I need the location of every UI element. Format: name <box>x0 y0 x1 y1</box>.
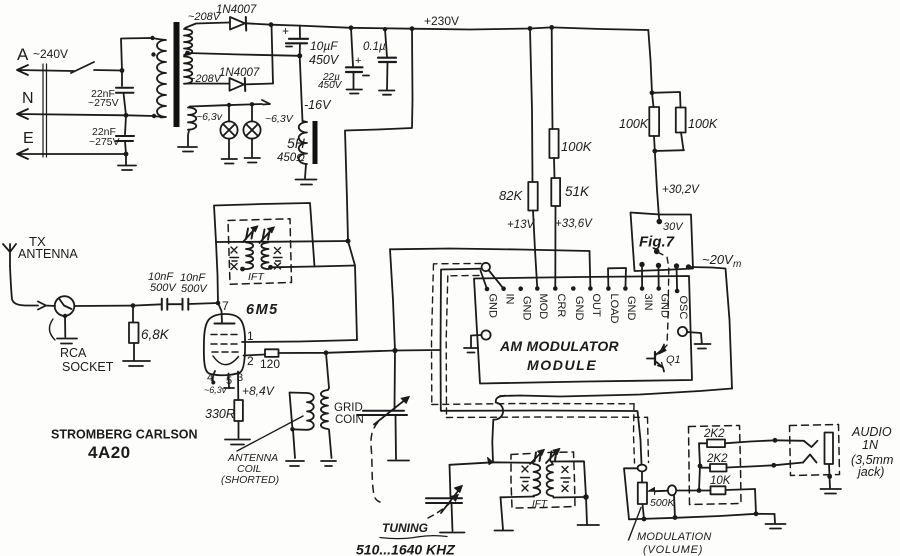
wire socket to node <box>74 305 133 307</box>
IFT1 core marks right <box>274 248 283 270</box>
node Fig7 pinD <box>686 264 691 269</box>
lamp LP1 <box>228 108 230 122</box>
svg-text:CRR: CRR <box>555 294 567 318</box>
IFT2 dashed box <box>511 452 575 508</box>
coax shield dashed pot drop <box>634 404 635 463</box>
capacitor C1 22nF upper: stem <box>121 71 123 87</box>
wire primary top <box>121 38 161 71</box>
svg-text:4A20: 4A20 <box>88 443 131 462</box>
svg-text:~6,3v: ~6,3v <box>196 111 223 123</box>
wire pin7 riser <box>216 242 222 322</box>
wire grid loop box <box>214 203 315 267</box>
transistor Q1 <box>654 352 656 365</box>
wire antenna coil to ground <box>293 430 295 458</box>
tube V1 envelope <box>204 314 245 375</box>
wire IFT2 primary ground drop <box>501 497 504 529</box>
svg-text:jack): jack) <box>856 465 884 479</box>
trimmer cap T4 <box>550 451 557 461</box>
svg-text:MODULATION: MODULATION <box>637 531 712 543</box>
wire osc out right and down <box>689 267 733 389</box>
svg-text:~6,3v: ~6,3v <box>204 385 227 395</box>
node ift-b+ <box>346 239 351 244</box>
jack dashed box <box>790 425 840 476</box>
wire R4 to MOD pin <box>533 211 537 289</box>
RCA socket J1 <box>55 296 75 316</box>
ground lamp LP2 <box>245 158 261 163</box>
ground VC1 <box>388 460 409 462</box>
RCA shield arc <box>49 319 55 340</box>
wire +230V rail <box>300 26 649 30</box>
transformer T1 secondary winding ~208V lower <box>184 53 192 84</box>
svg-text:7: 7 <box>222 299 229 313</box>
resistor R10 2K2 <box>700 467 710 469</box>
wire R10 to jack ring <box>774 463 803 466</box>
resistor R4 82K feed <box>530 29 533 183</box>
IFT2 primary coil <box>533 463 540 497</box>
TUBE SECTION <box>51 242 440 462</box>
bracket LOAD-GND strap <box>608 268 626 289</box>
wire coax centre to IN pin <box>489 270 504 289</box>
capacitor C1 lower stem <box>124 93 127 115</box>
wire rail to 100K pair <box>648 30 652 93</box>
jack J2 tip contact <box>804 441 818 447</box>
resistor R2 120 <box>265 349 279 357</box>
wire coax shield to GND pin <box>481 271 488 290</box>
wire IFT2 primary bottom <box>501 496 535 499</box>
wire mains cable pair <box>43 64 47 157</box>
svg-text:6M5: 6M5 <box>246 302 279 318</box>
connector left circle <box>481 330 490 339</box>
wire +30V into Fig7 <box>655 151 660 222</box>
ground RCA socket <box>57 339 77 344</box>
svg-text:GND: GND <box>487 294 499 319</box>
RF INPUT SECTION <box>3 234 220 374</box>
wire socket to ground <box>64 316 66 337</box>
svg-text:SOCKET: SOCKET <box>62 360 114 374</box>
wire -16V choke feed <box>300 56 303 121</box>
node N-junction <box>124 113 129 118</box>
svg-text:LOAD: LOAD <box>608 294 620 324</box>
svg-text:IFT: IFT <box>248 271 265 283</box>
wire VC1 to ground <box>395 416 398 460</box>
wire OUT drop to tuning <box>390 249 395 350</box>
svg-text:450V: 450V <box>318 80 343 91</box>
svg-text:IN: IN <box>504 294 516 305</box>
MODULE SECTION <box>390 27 741 464</box>
antenna symbol TX <box>3 244 16 266</box>
transformer T1 primary winding <box>157 40 166 118</box>
jack J2 ring contact <box>803 455 817 463</box>
svg-text:MODULE: MODULE <box>527 357 597 373</box>
wire IFT2 secondary top to right rail <box>551 461 586 497</box>
svg-text:450V: 450V <box>309 53 340 67</box>
svg-text:MOD: MOD <box>537 294 549 320</box>
svg-text:10µF: 10µF <box>310 39 338 53</box>
svg-text:51K: 51K <box>565 184 590 199</box>
node Fig7 pinC <box>674 263 679 268</box>
node primary-tap <box>151 52 155 56</box>
wire heater bottom to ground <box>188 130 189 146</box>
ground R3 <box>225 440 250 445</box>
svg-text:500V: 500V <box>181 283 208 295</box>
node Fig7 pinB <box>656 263 661 268</box>
Fig7 box <box>631 213 694 272</box>
switch S1 blade <box>71 62 94 73</box>
svg-text:1: 1 <box>247 329 254 343</box>
trimmer cap T2 <box>263 229 271 240</box>
ground VC2 <box>440 532 465 534</box>
node rail-82k <box>528 26 533 31</box>
wire pin2 lead <box>244 355 266 356</box>
wire osc bottom run <box>500 389 732 397</box>
svg-text:+: + <box>355 55 361 67</box>
wire D2 cathode riser <box>272 25 274 84</box>
wire pin4 lead <box>213 371 215 382</box>
coax connector circle at IN <box>482 263 490 271</box>
node Fig7 base <box>654 249 660 255</box>
trimmer cap T3 <box>535 452 542 462</box>
RECTIFIER/PSU SECTION <box>186 4 648 185</box>
svg-text:GND: GND <box>521 296 533 321</box>
svg-text:STROMBERG CARLSON: STROMBERG CARLSON <box>51 428 198 442</box>
node coil-bottom <box>152 114 156 118</box>
svg-text:1N: 1N <box>862 438 879 452</box>
node center-tap <box>185 51 190 56</box>
wire IFT2 to ground <box>586 497 587 524</box>
wiper arrow VR1 <box>648 488 655 495</box>
svg-text:510...1640 KHZ: 510...1640 KHZ <box>356 542 455 556</box>
svg-text:(SHORTED): (SHORTED) <box>221 474 279 486</box>
connector wiper ellipse <box>668 485 676 495</box>
ground heater winding <box>178 147 197 152</box>
node lamp2-top <box>250 102 254 106</box>
wire R11 to rail <box>755 489 756 514</box>
node R10 out <box>771 463 776 468</box>
jack J2 sleeve <box>825 433 834 465</box>
svg-text:2K2: 2K2 <box>703 428 725 440</box>
resistor R8 100K parallel <box>652 92 681 108</box>
wire grid coil riser <box>326 353 329 388</box>
coax shield dashed vertical pair <box>432 264 434 405</box>
svg-text:5H: 5H <box>287 135 306 151</box>
pointer modulation <box>629 508 642 541</box>
svg-text:~20V: ~20V <box>702 252 734 267</box>
coax shield dashed top left <box>434 263 481 265</box>
node socket shell <box>63 314 67 318</box>
trimmer cap T1 <box>246 228 254 239</box>
node tuning junction <box>392 348 397 353</box>
svg-text:IFT: IFT <box>532 499 548 510</box>
svg-text:Q1: Q1 <box>666 354 681 366</box>
svg-text:+: + <box>282 24 289 38</box>
ground connector right <box>695 344 711 349</box>
wire D1 to rail <box>271 24 300 27</box>
capacitor C2 22nF lower: stem <box>125 115 126 134</box>
transformer T1 heater winding ~6.3V <box>188 107 196 131</box>
lamp LP2 <box>251 107 253 122</box>
node pin4 end <box>211 381 215 385</box>
svg-text:AUDIO: AUDIO <box>851 425 892 439</box>
capacitor C4 22uF 450V <box>351 28 353 66</box>
svg-text:1N4007: 1N4007 <box>216 4 257 16</box>
wire VC1 riser <box>394 351 397 410</box>
MAINS SECTION <box>17 36 161 170</box>
node E-junction <box>124 152 129 157</box>
diode D1 1N4007 upper <box>186 23 230 28</box>
svg-text:Fig.7: Fig.7 <box>639 234 675 251</box>
resistor dashed box <box>689 426 742 505</box>
svg-text:GND: GND <box>625 296 637 321</box>
node primary-top <box>150 36 154 40</box>
inductor L1 5H choke <box>299 121 307 164</box>
node D1 cathode junction <box>269 22 274 27</box>
ground antenna coil <box>286 461 304 466</box>
svg-text:10K: 10K <box>710 475 732 487</box>
resistor R5 100K feed <box>551 27 554 129</box>
wire antenna to socket with arrow <box>10 266 55 310</box>
inductor grid coil <box>321 388 332 458</box>
svg-text:~240V: ~240V <box>33 47 68 61</box>
wire tank top <box>450 462 534 465</box>
svg-text:100K: 100K <box>688 117 718 131</box>
ground IFT2 secondary <box>578 524 600 526</box>
ground IFT2 primary <box>495 530 514 532</box>
wire A line with arrow <box>17 65 74 75</box>
node pot bottom <box>642 517 647 522</box>
capacitor C3 10uF 450V <box>299 26 301 38</box>
capacitor C7 10nF <box>183 299 189 310</box>
variable capacitor VC1 arrow <box>374 399 407 425</box>
wire 100K pair bottom <box>654 136 684 151</box>
svg-text:m: m <box>733 259 741 270</box>
ground jack <box>821 489 842 494</box>
node rail-100k <box>549 25 554 30</box>
svg-text:330R: 330R <box>205 407 235 421</box>
svg-text:3IN: 3IN <box>642 294 654 311</box>
svg-text:AM MODULATOR: AM MODULATOR <box>499 338 620 354</box>
node rail-22u <box>349 25 354 30</box>
transformer T1 secondary winding ~208V upper <box>184 28 192 56</box>
TRANSFORMER SECTION <box>157 11 294 164</box>
wire wiper branch down <box>674 495 675 518</box>
IFT1 dashed shield box <box>228 219 292 284</box>
inductor L1 core <box>313 121 318 164</box>
svg-text:+30,2V: +30,2V <box>662 184 700 196</box>
node A-junction <box>120 68 125 73</box>
node wiper-rail <box>673 515 678 520</box>
node 100k-pair top <box>650 90 655 95</box>
capacitor C1 plates <box>116 88 134 93</box>
resistor R1 6.8K <box>132 306 134 323</box>
wire VC2 to ground <box>452 503 453 531</box>
svg-text:-16V: -16V <box>304 98 332 112</box>
IFT2 core marks right <box>561 467 570 492</box>
node ift primary bottom <box>240 267 245 272</box>
node link-R10 <box>698 464 703 469</box>
svg-text:GND: GND <box>573 296 585 321</box>
node 6.8k junction <box>131 303 136 308</box>
COILS/TUNING SECTION <box>221 351 599 556</box>
wire node to C6 <box>133 304 162 305</box>
wire center tap run <box>188 53 300 56</box>
node grid junction <box>216 301 221 306</box>
wire corner to ift secondary bottom <box>271 266 356 268</box>
svg-text:30V: 30V <box>663 221 684 233</box>
wire A to junction <box>94 69 122 72</box>
ground below choke <box>296 164 317 185</box>
variable capacitor VC1 plates <box>357 411 407 415</box>
svg-text:GND: GND <box>659 294 671 319</box>
svg-text:500K: 500K <box>650 497 676 509</box>
potentiometer VR1 500K body <box>638 483 647 505</box>
wire jack to ground <box>829 464 830 488</box>
svg-text:(VOLUME): (VOLUME) <box>643 544 703 556</box>
node rail-10k <box>754 511 759 516</box>
inductor antenna coil shorted loop <box>290 393 314 430</box>
svg-text:ANTENNA: ANTENNA <box>18 247 78 261</box>
node IFT2 right <box>583 494 589 500</box>
svg-text:TUNING: TUNING <box>382 521 428 535</box>
wire ift top rail <box>216 241 348 242</box>
IFT2 secondary coil <box>547 462 554 498</box>
connector pot top ellipse <box>638 465 647 472</box>
svg-text:1N4007: 1N4007 <box>219 67 260 79</box>
BOTTOM RIGHT SECTION <box>624 425 893 556</box>
wire shield to rail <box>624 468 638 519</box>
wire R2 to junctions <box>279 350 441 353</box>
capacitor C2 plates <box>116 136 134 141</box>
svg-text:6,8K: 6,8K <box>141 327 170 342</box>
variable capacitor VC2 arrow <box>441 489 460 514</box>
node rail-01u <box>383 27 387 31</box>
svg-text:~275V: ~275V <box>88 97 119 109</box>
wire C7 to grid node <box>189 303 219 304</box>
svg-text:~6,3V: ~6,3V <box>265 113 294 125</box>
svg-text:120: 120 <box>260 357 280 371</box>
node link-R11 <box>697 488 702 493</box>
wire pin5 lead <box>224 374 234 389</box>
wire VC2 stem <box>450 465 451 498</box>
capacitor C5 0.1uF <box>385 29 387 57</box>
wire R9 to jack tip <box>775 439 804 442</box>
node 30V <box>657 219 663 225</box>
svg-text:+33,6V: +33,6V <box>555 218 593 230</box>
capacitor C6 10nF <box>162 299 168 310</box>
dashed gang link VC1 <box>371 422 380 502</box>
svg-text:+230V: +230V <box>424 14 459 28</box>
node ift secondary bottom <box>268 265 273 270</box>
node R9 out <box>773 438 778 443</box>
svg-text:E: E <box>23 130 34 147</box>
svg-text:OSC: OSC <box>677 296 689 320</box>
node osc-tank junction <box>488 458 494 465</box>
node lamp1-top <box>227 103 231 107</box>
ground grid coil <box>321 461 336 466</box>
wire IFT2 secondary bottom <box>554 496 587 499</box>
pointer antenna coil <box>237 416 303 451</box>
module pin dots <box>485 287 490 292</box>
connector right circle <box>678 327 687 336</box>
node Fig7 pinA <box>639 262 644 267</box>
diode D2 1N4007 lower <box>190 83 229 85</box>
wire E line with arrow <box>17 149 126 159</box>
wire Fig7 pinA to 3IN <box>641 265 643 289</box>
coax shield dashed bottom pair <box>432 404 634 405</box>
wire resistor left link <box>699 443 700 490</box>
svg-text:OUT: OUT <box>590 294 602 318</box>
ground bottom rail <box>766 514 786 529</box>
wire R5 to R6 <box>553 158 556 178</box>
svg-text:RCA: RCA <box>60 346 87 360</box>
wire pin3 lead <box>237 372 239 401</box>
svg-text:450Ω: 450Ω <box>277 152 305 164</box>
svg-text:0.1µ: 0.1µ <box>363 41 386 53</box>
coax centre wire <box>441 269 642 465</box>
wire osc hop over shield <box>492 396 505 463</box>
node grid-coil junction <box>324 350 329 355</box>
svg-text:+8,4V: +8,4V <box>242 384 275 398</box>
ground connector left <box>464 348 478 353</box>
ground R1 <box>123 361 150 366</box>
tube V1 grid cap bar <box>215 323 235 325</box>
svg-text:N: N <box>22 90 34 107</box>
wire Fig7 pinB to GND <box>658 266 660 289</box>
node centertap-cap <box>297 53 302 58</box>
wire bottom rail <box>629 514 756 520</box>
underline TUNING <box>380 536 447 539</box>
node antenna coil corner <box>290 427 295 432</box>
resistor R3 330R <box>234 400 243 421</box>
node rail-drop1 <box>410 26 415 31</box>
svg-text:+13V: +13V <box>507 219 536 231</box>
node jack ground <box>827 474 832 479</box>
wire rail to ground <box>756 513 775 515</box>
resistor R6 51K <box>551 178 560 206</box>
svg-text:500V: 500V <box>150 282 177 294</box>
svg-text:82K: 82K <box>499 188 523 203</box>
ground lamp LP1 <box>222 159 238 164</box>
svg-text:100K: 100K <box>619 117 649 131</box>
resistor R7 100K <box>652 93 654 107</box>
ground below E junction <box>118 154 136 170</box>
variable capacitor VC2 plates <box>426 498 462 503</box>
capacitor C2 lower stem <box>125 141 126 154</box>
wire N to coil bottom <box>126 115 161 117</box>
node 100k-pair bottom <box>652 149 657 154</box>
wire C6 to C7 <box>168 303 183 305</box>
IFT1 core marks left <box>230 247 239 270</box>
wire OUT to left <box>390 249 590 252</box>
wire heater top to arrow <box>190 100 270 107</box>
svg-text:~275V: ~275V <box>89 136 120 148</box>
module box <box>474 276 692 384</box>
svg-text:GRID: GRID <box>334 402 363 414</box>
IFT1 secondary coil <box>261 242 270 269</box>
tube V1 grid dashes <box>211 335 241 353</box>
wire B+ to plate corner <box>348 241 357 340</box>
wire R6 to CRR pin <box>554 206 556 289</box>
transformer T1 core <box>174 22 180 127</box>
IFT1 primary coil <box>243 242 253 269</box>
wire B+ drop from rail <box>345 29 413 241</box>
wire pot feed <box>641 472 643 483</box>
resistor R11 10K <box>699 490 711 492</box>
wire Fig7 pinC to OSC <box>676 266 679 290</box>
wire OUT riser <box>589 251 592 289</box>
svg-text:A: A <box>17 45 29 64</box>
svg-text:100K: 100K <box>561 139 593 154</box>
resistor R9 2K2 <box>699 442 707 444</box>
